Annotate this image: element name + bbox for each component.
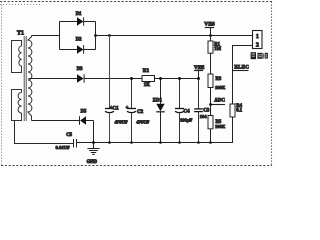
wire secondary top to bridge: [32, 35, 60, 37]
svg-text:100K: 100K: [215, 124, 226, 129]
capacitor C4: [175, 79, 184, 143]
svg-text:VES: VES: [204, 22, 215, 28]
wire bottom rail: [77, 142, 234, 144]
svg-text:1K: 1K: [144, 83, 151, 88]
svg-text:470UF: 470UF: [115, 120, 128, 125]
VEE power tag: [194, 66, 205, 78]
resistor R4: [230, 104, 243, 143]
resistor R5: [208, 116, 226, 143]
node ADC label: [209, 99, 225, 106]
ground: [87, 143, 99, 155]
label battery (Chinese, drawn glyphs): [251, 52, 268, 59]
node VEE / C3 top: [197, 77, 200, 80]
capacitor C5: [74, 139, 77, 148]
wire bridge left vertical: [59, 22, 61, 50]
node C2 top: [130, 77, 133, 80]
transformer secondary winding: [28, 36, 32, 121]
ELEC tag: [233, 66, 250, 71]
diode D5 label: [81, 110, 87, 115]
transformer core: [24, 36, 26, 121]
svg-text:D2: D2: [76, 37, 82, 42]
svg-text:0.1: 0.1: [236, 108, 243, 113]
wire battery pin2 to R4: [233, 46, 253, 105]
svg-text:470UF: 470UF: [136, 120, 149, 125]
wire D3 output to VEE node: [84, 78, 198, 80]
wire transformer primary bottom to C5: [15, 121, 74, 144]
node VES rail: [209, 34, 212, 37]
VES power tag: [204, 22, 215, 36]
transformer primary lower winding: [12, 90, 22, 121]
svg-text:C2: C2: [137, 110, 144, 115]
svg-text:T1: T1: [17, 31, 24, 37]
svg-text:0.01UF: 0.01UF: [56, 145, 70, 150]
svg-text:D3: D3: [77, 67, 83, 72]
mid rail junction dots: [130, 77, 200, 80]
resistor R3: [208, 74, 226, 116]
diode D1 label: [76, 12, 82, 17]
zener diode ZD1: [156, 79, 164, 143]
bottom rail junction dots: [92, 141, 212, 144]
diode D3 label: [77, 67, 83, 72]
svg-text:R2: R2: [143, 69, 150, 74]
diode D3: [29, 74, 85, 83]
node C4 top: [178, 77, 181, 80]
svg-text:100µF: 100µF: [180, 118, 193, 123]
svg-text:1M: 1M: [214, 47, 221, 52]
svg-text:ZD1: ZD1: [153, 99, 163, 104]
diode D5: [32, 116, 94, 142]
label 0.01UF: [56, 145, 70, 150]
node C1 top: [108, 34, 111, 37]
diode D2 label: [76, 37, 82, 42]
svg-text:D5: D5: [81, 110, 87, 115]
diode D1: [60, 17, 96, 26]
resistor R2: [142, 69, 155, 88]
svg-text:+: +: [126, 106, 129, 111]
svg-text:104: 104: [200, 114, 208, 119]
node bridge output: [94, 34, 97, 37]
resistor R1: [208, 36, 222, 75]
svg-text:C1: C1: [113, 107, 120, 112]
zener ZD1 label: [153, 99, 163, 104]
node ZD1 top: [159, 77, 162, 80]
diode D2: [60, 45, 96, 54]
svg-text:D1: D1: [76, 12, 82, 17]
svg-text:ADC: ADC: [214, 99, 225, 104]
svg-text:100K: 100K: [215, 85, 226, 90]
svg-text:C5: C5: [66, 133, 72, 138]
svg-text:GND: GND: [87, 160, 98, 165]
transformer T1 label: [17, 31, 24, 37]
svg-text:C4: C4: [184, 109, 191, 114]
transformer primary upper winding: [12, 41, 22, 73]
wire top rail VES: [96, 35, 253, 37]
capacitor C5 label: [66, 133, 72, 138]
capacitor C1: [105, 36, 114, 143]
capacitor C3: [194, 79, 203, 143]
svg-text:R3: R3: [216, 77, 222, 82]
wire bridge right vertical: [95, 22, 97, 50]
svg-text:2: 2: [256, 43, 259, 49]
capacitor C2: [127, 79, 136, 143]
battery connector J1: [253, 31, 263, 49]
border (dashed frame): [0, 2, 272, 166]
svg-text:1: 1: [256, 34, 259, 40]
